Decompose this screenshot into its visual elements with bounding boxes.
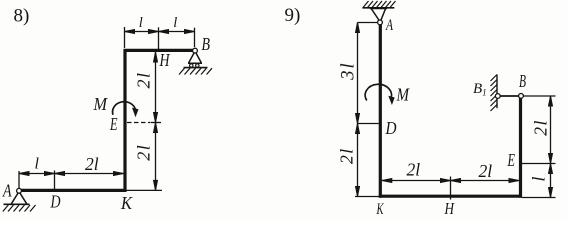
dashed line from E bbox=[127, 122, 150, 124]
pin circle B bbox=[519, 94, 524, 99]
svg-text:2l: 2l bbox=[531, 119, 551, 136]
pin support A: circle bbox=[17, 188, 22, 193]
bottom beam A-D-K (member) bbox=[19, 189, 127, 192]
roller support B: ground line bbox=[184, 67, 208, 69]
B tick (fig 9 right dim) bbox=[524, 95, 556, 97]
vertical beam A-D-K (member) bbox=[379, 25, 382, 198]
moment M arc (fig 8) bbox=[113, 102, 136, 115]
E tick bbox=[151, 122, 162, 124]
right vertical dim line upper 2l (beam to E) bbox=[155, 52, 157, 123]
left dim arrows bbox=[356, 23, 360, 33]
extension line A (bottom dim) bbox=[18, 171, 20, 188]
pin support A: ground line bbox=[4, 203, 30, 205]
D tick (fig 9) bbox=[358, 123, 379, 125]
svg-text:2l: 2l bbox=[85, 154, 99, 174]
roller support B: hatching bbox=[179, 68, 212, 74]
svg-text:E: E bbox=[507, 150, 515, 170]
top pin support A: circle bbox=[378, 20, 383, 25]
vertical beam K-E-H (member) bbox=[123, 49, 126, 192]
link bar B1-B bbox=[500, 95, 519, 97]
wall support B1: wall line bbox=[496, 75, 498, 109]
svg-text:B: B bbox=[519, 71, 526, 91]
bottom dimension line bbox=[19, 173, 124, 175]
svg-text:A: A bbox=[2, 181, 12, 201]
top beam H-B (member) bbox=[124, 49, 195, 52]
A tick (fig 9 left dim) bbox=[358, 22, 378, 24]
svg-text:B1: B1 bbox=[473, 81, 487, 98]
roller support B: triangle bbox=[188, 53, 202, 64]
extension line middle H (top dim) bbox=[158, 27, 160, 49]
right dim arrows (fig 9) bbox=[549, 96, 553, 106]
roller support B: rollers bbox=[190, 64, 193, 67]
svg-text:2l: 2l bbox=[337, 147, 357, 164]
svg-text:l: l bbox=[529, 176, 549, 181]
roller support B: circle bbox=[193, 48, 198, 53]
top dim arrows bbox=[125, 30, 135, 34]
svg-text:E: E bbox=[109, 114, 117, 134]
svg-text:D: D bbox=[385, 118, 397, 138]
svg-text:B: B bbox=[202, 34, 211, 54]
moment M arrowhead (fig 9) bbox=[388, 96, 394, 105]
svg-text:2l: 2l bbox=[134, 144, 154, 161]
svg-text:2l: 2l bbox=[407, 160, 421, 180]
moment M arc (fig 9) bbox=[365, 84, 391, 100]
svg-text:l: l bbox=[139, 15, 143, 31]
svg-text:K: K bbox=[120, 193, 133, 213]
pin support A: hatching bbox=[3, 205, 36, 212]
svg-text:3l: 3l bbox=[339, 61, 359, 80]
svg-text:M: M bbox=[93, 94, 108, 114]
top pin support A: hatching bbox=[363, 1, 396, 8]
svg-text:M: M bbox=[396, 85, 410, 105]
top dimension line bbox=[125, 31, 195, 33]
extension line left (top dim) bbox=[124, 27, 126, 48]
svg-text:2l: 2l bbox=[479, 161, 493, 181]
svg-text:K: K bbox=[376, 201, 385, 218]
svg-text:9): 9) bbox=[285, 5, 301, 26]
baseline tick right of K bbox=[127, 189, 163, 191]
left dimension line 3l/2l bbox=[357, 23, 359, 197]
E tick (fig 9 right dim) bbox=[522, 163, 556, 165]
H extension line (fig 9) bbox=[450, 177, 452, 200]
right vertical beam B-E (member) bbox=[519, 97, 522, 198]
baseline tick left of K bbox=[355, 196, 379, 198]
extension line D (bottom dim) bbox=[54, 171, 56, 190]
svg-text:D: D bbox=[50, 192, 61, 212]
extension line right B (top dim) bbox=[194, 28, 196, 47]
right vertical dim line lower 2l (E to base) bbox=[155, 123, 157, 191]
svg-text:H: H bbox=[444, 199, 456, 218]
svg-text:8): 8) bbox=[14, 6, 30, 27]
svg-text:A: A bbox=[385, 17, 393, 34]
top pin support A: ground line bbox=[362, 7, 394, 9]
svg-text:H: H bbox=[159, 50, 171, 70]
pin support A: triangle bbox=[11, 193, 26, 204]
wall support B1: hatching bbox=[491, 75, 498, 112]
bottom dim arrows bbox=[19, 172, 29, 176]
svg-text:2l: 2l bbox=[134, 71, 154, 88]
svg-text:l: l bbox=[173, 15, 177, 31]
right dimension line 2l/l (fig 9) bbox=[550, 96, 552, 198]
bottom dimension line (fig 9) bbox=[382, 180, 519, 182]
bottom dim arrows (fig 9) bbox=[382, 179, 392, 183]
moment M arrowhead bbox=[132, 108, 139, 118]
wall support B1: wall circle bbox=[495, 94, 500, 99]
svg-text:l: l bbox=[35, 156, 40, 173]
top pin support A: triangle bbox=[370, 9, 387, 21]
bottom beam K-H (member) bbox=[379, 195, 522, 198]
baseline tick right of beam (fig 9) bbox=[522, 197, 556, 199]
